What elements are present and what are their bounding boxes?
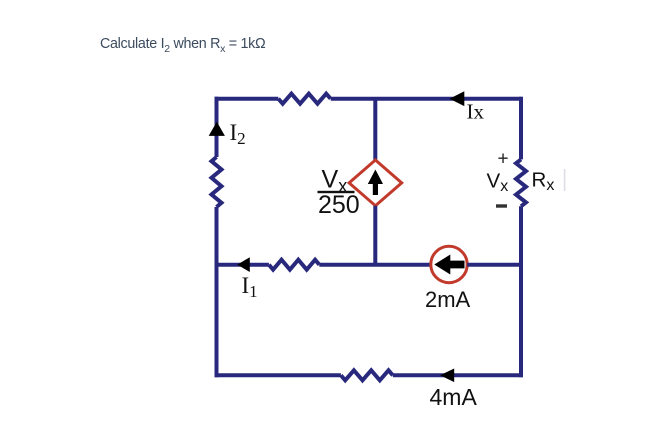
arrow Ix (current direction on top wire): [450, 91, 465, 106]
svg-text:Rx: Rx: [532, 169, 555, 195]
resistor middle (between I1 arrow and center node): [269, 260, 319, 270]
svg-text:4mA: 4mA: [430, 384, 478, 410]
svg-text:Vx: Vx: [487, 169, 509, 195]
wire middle vertical upper (top wire to dependent source): [373, 99, 377, 161]
svg-text:2mA: 2mA: [425, 287, 471, 312]
resistor Rx (vertical, right branch): [516, 159, 526, 206]
wire middle vertical lower (source to middle wire): [373, 206, 377, 265]
resistor top (between node A and node B): [278, 94, 330, 104]
svg-text:I1: I1: [242, 273, 258, 301]
wire bottom-right segment: [393, 373, 523, 377]
wire top-left segment: [215, 97, 279, 101]
svg-text:+: +: [498, 149, 509, 170]
resistor bottom: [341, 370, 393, 380]
arrow I1 (left arrow on middle wire): [237, 257, 250, 272]
dependent current source Vx/250 (diamond): [349, 160, 402, 206]
problem text: [100, 36, 265, 55]
current source 2mA (circle): [431, 246, 467, 282]
svg-text:250: 250: [318, 191, 360, 219]
resistor R left (vertical, on left branch): [212, 157, 222, 207]
wire middle-left segment: [217, 263, 269, 267]
wire left upper segment: [215, 97, 219, 157]
arrow inside 2mA source (left): [434, 255, 464, 275]
wire middle-right segment: [467, 263, 521, 267]
wire bottom-left segment: [215, 373, 341, 377]
wire right lower segment: [519, 206, 523, 377]
wire top-right segment: [331, 97, 521, 101]
wire left lower segment: [215, 207, 219, 377]
arrow inside dependent source (up): [368, 170, 383, 196]
arrow I2 (up arrow on left wire): [209, 122, 225, 136]
arrow 4mA direction (left arrow on bottom wire): [440, 369, 454, 383]
wire right upper segment: [519, 97, 523, 160]
label minus (polarity of Vx): [496, 204, 507, 207]
fraction bar of Vx/250: [318, 191, 355, 193]
wire middle-center segment: [319, 263, 430, 267]
faint artifact line: [564, 169, 566, 191]
svg-text:Ix: Ix: [467, 100, 485, 124]
svg-text:I2: I2: [230, 120, 246, 148]
